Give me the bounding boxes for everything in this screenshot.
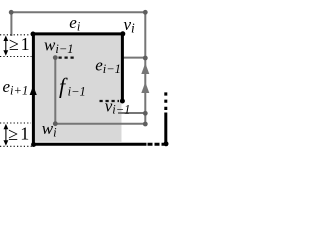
wire: gray horizontal from w_i to right — [55, 123, 145, 125]
node: gray dot on right vertical at w_{i-1} row — [143, 56, 148, 61]
black bottom edge dashed part — [148, 143, 165, 146]
node: gray dot on right vertical at v_{i-1} row — [143, 111, 148, 116]
wire: gray edge f_{i-1} vertical from w_{i-1} to w_i — [54, 58, 56, 124]
arrow on right gray vertical (upper) — [141, 63, 149, 74]
wire: gray stub below top-left node — [10, 12, 12, 36]
dotted measure line at w_{i-1} row — [0, 56, 32, 58]
black bottom edge solid part — [33, 143, 146, 146]
wire: gray horizontal from black edge to right vertical at w_{i-1} row — [122, 57, 145, 59]
node: black corner dot bottom-left — [31, 142, 36, 147]
node: w_{i-1} gray dot — [53, 55, 58, 60]
wire: gray horizontal at v_{i-1} row — [118, 112, 145, 114]
edge e_{i-1}: black right edge from v_i to v_{i-1} — [121, 34, 124, 101]
node: gray dot on right vertical at w_i row — [143, 122, 148, 127]
svg-text:≥: ≥ — [8, 124, 18, 144]
svg-text:vi: vi — [124, 15, 136, 36]
measure arrow bottom-left (double headed) — [5, 126, 7, 145]
wire: top gray edge horizontal — [11, 11, 145, 13]
node: black corner dot bottom-right — [164, 141, 169, 146]
black vertical right side solid part — [164, 113, 167, 144]
arrow on right gray vertical (lower) — [141, 82, 149, 93]
svg-text:≥: ≥ — [9, 34, 19, 54]
svg-text:1: 1 — [20, 124, 29, 144]
dotted measure line at w_i row — [0, 122, 31, 124]
black dashed vertical right side (upper part) — [164, 92, 167, 112]
edge e_{i+1}: black left edge — [32, 34, 35, 144]
dotted measure line bottom (at bottom edge row) — [0, 145, 33, 147]
node v_i: black dot — [120, 31, 125, 36]
svg-text:ei+1: ei+1 — [3, 77, 29, 98]
node: w_i gray dot — [53, 121, 58, 126]
dashed black segment left of v_{i-1} — [100, 100, 120, 102]
dotted measure line top (at e_i row) — [0, 34, 31, 36]
node v_{i-1}: black dot — [120, 99, 125, 104]
shaded face region — [34, 34, 122, 142]
arrow on e_{i+1} pointing up — [30, 86, 37, 96]
measure arrow top-left (double headed) — [5, 38, 7, 55]
edge e_i: black top edge — [33, 32, 122, 35]
node: black corner dot top-left — [31, 32, 36, 37]
node: gray dot top-right — [143, 10, 148, 15]
node: gray dot top-left — [9, 10, 14, 15]
svg-text:1: 1 — [21, 34, 30, 54]
svg-text:ei: ei — [69, 13, 81, 34]
wire: right gray vertical line — [144, 12, 146, 124]
dashed black segment right of w_{i-1} — [59, 56, 77, 58]
